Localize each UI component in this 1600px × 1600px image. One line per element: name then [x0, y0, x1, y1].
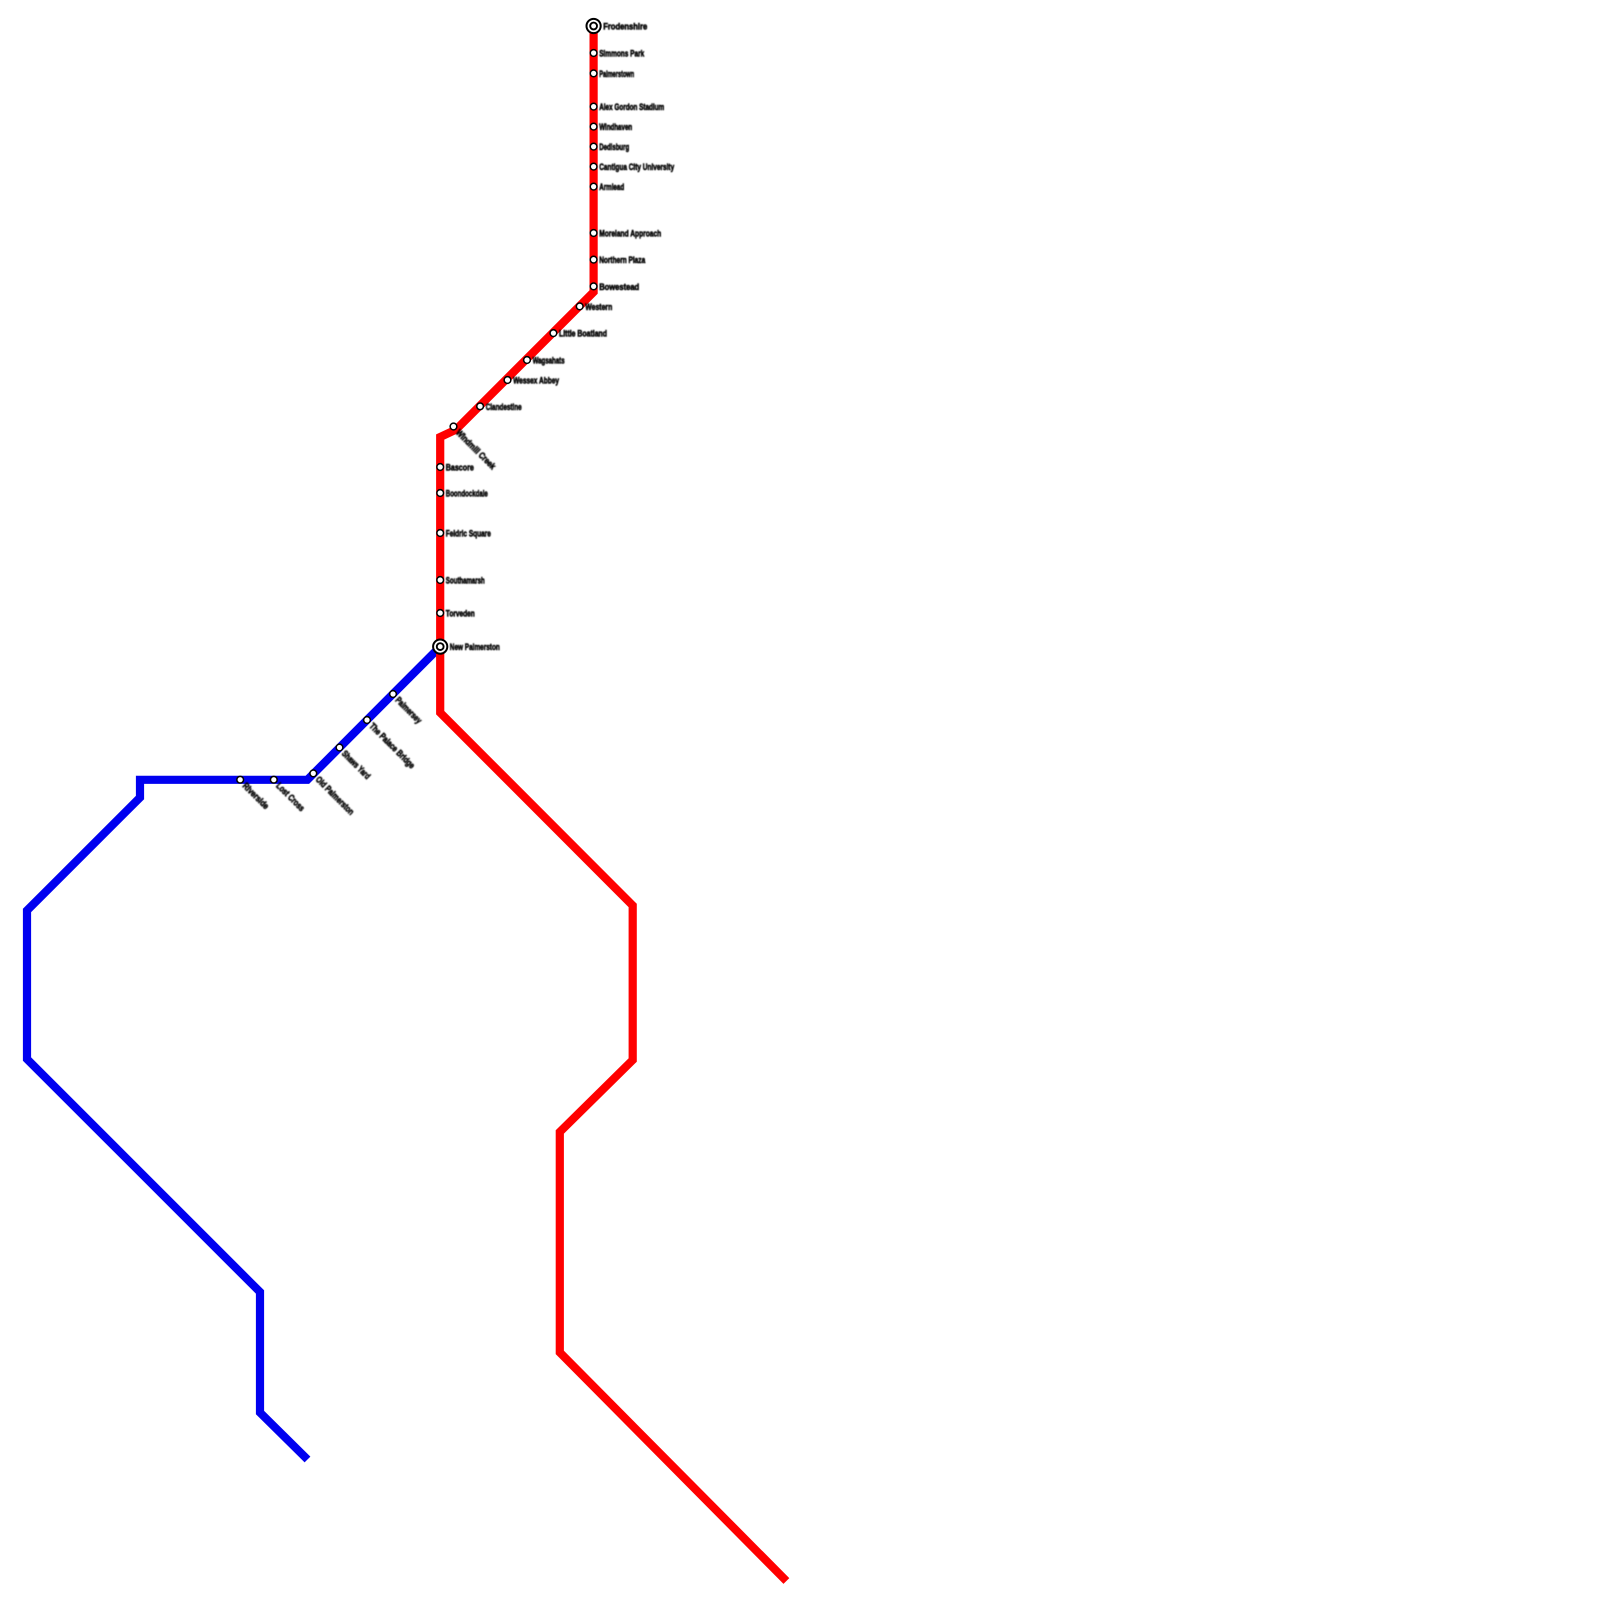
svg-text:Torveden: Torveden: [446, 609, 475, 619]
svg-text:Bowestead: Bowestead: [599, 282, 639, 292]
svg-text:Clandestine: Clandestine: [486, 402, 522, 412]
station Bascore: [437, 463, 474, 473]
station Shaws Yard: [336, 744, 372, 781]
svg-text:Moreland Approach: Moreland Approach: [599, 229, 661, 239]
station Feldric Square: [437, 529, 491, 539]
station Old Palmerston: [310, 770, 356, 817]
station Armlead: [590, 182, 624, 192]
svg-text:Northern Plaza: Northern Plaza: [599, 255, 646, 265]
station Clandestine: [477, 402, 522, 412]
svg-text:Armlead: Armlead: [599, 182, 624, 192]
station Riverside: [237, 776, 271, 811]
svg-text:Southamarsh: Southamarsh: [446, 576, 485, 586]
station New Palmerston: [433, 640, 500, 654]
station Windhaven: [590, 122, 632, 132]
station Lost Cross: [270, 776, 306, 813]
svg-text:Wessex Abbey: Wessex Abbey: [513, 376, 560, 386]
station Torveden: [437, 609, 475, 619]
station Alex Gordon Stadium: [590, 102, 664, 112]
station Little Boatland: [550, 329, 607, 339]
svg-text:Bascore: Bascore: [446, 463, 474, 473]
station Western: [576, 302, 612, 312]
station Frodenshire: [587, 19, 648, 33]
station Cantigua City University: [590, 162, 675, 172]
red line (main trunk): [440, 26, 786, 1581]
svg-text:Feldric Square: Feldric Square: [446, 529, 491, 539]
svg-text:Alex Gordon Stadium: Alex Gordon Stadium: [599, 102, 664, 112]
station Dedisburg: [590, 142, 629, 152]
svg-text:Wagsahats: Wagsahats: [533, 356, 565, 366]
station Simmons Park: [590, 49, 645, 59]
station Palmerstown: [590, 69, 634, 79]
station Wagsahats: [524, 356, 565, 366]
svg-text:Cantigua City University: Cantigua City University: [599, 162, 675, 172]
station Southamarsh: [437, 576, 485, 586]
svg-text:Western: Western: [585, 302, 612, 312]
station Northern Plaza: [590, 255, 646, 265]
svg-text:Simmons Park: Simmons Park: [599, 49, 645, 59]
svg-text:Dedisburg: Dedisburg: [599, 142, 629, 152]
station Wessex Abbey: [504, 376, 560, 386]
svg-text:Frodenshire: Frodenshire: [603, 22, 647, 32]
station Windmill Creek: [450, 423, 498, 472]
station The Palace Bridge: [364, 717, 417, 771]
svg-text:Palmerstown: Palmerstown: [599, 69, 634, 79]
station Moreland Approach: [590, 229, 661, 239]
station Palmersey: [390, 691, 425, 726]
station Boondockdale: [437, 489, 488, 499]
station Bowestead: [590, 282, 639, 292]
svg-text:Boondockdale: Boondockdale: [446, 489, 488, 499]
svg-text:New Palmerston: New Palmerston: [450, 642, 500, 652]
svg-text:Little Boatland: Little Boatland: [559, 329, 607, 339]
blue line (Palmerston branch): [27, 647, 440, 1460]
svg-text:Windhaven: Windhaven: [599, 122, 632, 132]
